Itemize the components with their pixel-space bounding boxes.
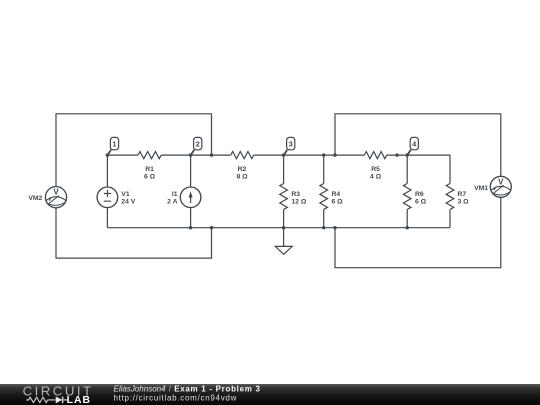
svg-text:http://circuitlab.com/cn94vdw: http://circuitlab.com/cn94vdw — [114, 393, 238, 402]
svg-text:LAB: LAB — [67, 395, 91, 405]
svg-text:EliasJohnson4 / Exam 1 - Probl: EliasJohnson4 / Exam 1 - Problem 3 — [114, 384, 261, 393]
